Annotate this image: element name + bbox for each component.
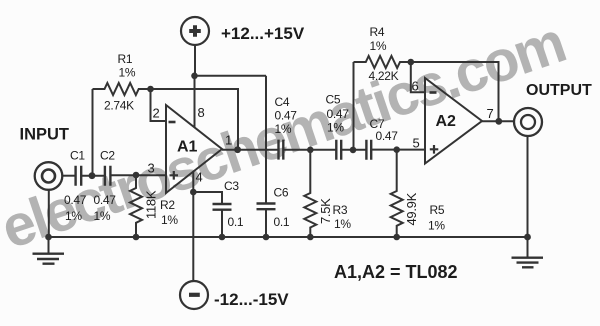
ground symbol right	[512, 237, 544, 267]
node R2 top	[133, 172, 140, 179]
wire pin4 to V-	[192, 172, 194, 281]
node C5-C7 / R4 tap	[350, 147, 357, 154]
wire C3 bottom lead	[221, 210, 223, 237]
capacitor C7	[366, 117, 398, 160]
svg-text:1%: 1%	[275, 122, 292, 136]
svg-text:C3: C3	[224, 179, 239, 193]
svg-text:INPUT: INPUT	[20, 126, 70, 144]
svg-text:R1: R1	[118, 52, 133, 66]
svg-text:1%: 1%	[94, 209, 111, 223]
capacitor C6	[257, 186, 290, 230]
node output ground	[524, 234, 531, 241]
node R3 bottom	[307, 234, 314, 241]
ground rail	[49, 236, 528, 238]
wire feedback A1	[151, 89, 239, 150]
node V+ junction	[191, 73, 198, 80]
svg-text:A1: A1	[177, 139, 198, 156]
svg-text:A2: A2	[436, 113, 457, 130]
svg-text:2.74K: 2.74K	[104, 99, 134, 113]
svg-text:0.47: 0.47	[275, 109, 298, 123]
svg-text:0.47: 0.47	[376, 129, 399, 143]
resistor R5	[391, 150, 446, 237]
svg-text:0.47: 0.47	[327, 107, 350, 121]
wire A1 output to C4	[222, 149, 278, 151]
svg-text:1%: 1%	[428, 219, 445, 233]
capacitor C5	[326, 93, 350, 160]
node R5 top	[393, 146, 400, 153]
svg-text:R4: R4	[370, 25, 385, 39]
svg-text:+12...+15V: +12...+15V	[221, 24, 305, 43]
svg-text:R5: R5	[430, 203, 445, 217]
wire C4 to C5	[283, 149, 336, 151]
wire output connector to ground rail	[527, 135, 529, 237]
V- supply terminal	[180, 281, 208, 309]
svg-text:2: 2	[153, 106, 160, 121]
svg-text:1: 1	[225, 133, 232, 148]
capacitor C1	[64, 149, 87, 224]
svg-text:0.47: 0.47	[94, 193, 117, 207]
wire input shield down	[48, 189, 50, 237]
svg-text:OUTPUT: OUTPUT	[526, 82, 592, 99]
ground symbol left	[33, 237, 65, 264]
wire C1 to C2	[81, 175, 104, 177]
wire V+ rail to C6	[195, 75, 267, 77]
svg-text:7: 7	[487, 106, 494, 121]
wire feedback A2	[411, 62, 499, 121]
wire R4 left vertical	[353, 62, 355, 150]
node R4 right junction	[408, 59, 415, 66]
svg-text:1%: 1%	[327, 121, 344, 135]
op-amp A1	[166, 105, 222, 193]
resistor R3	[304, 150, 351, 237]
svg-text:8: 8	[198, 105, 205, 120]
node pin4 / C3	[190, 189, 197, 196]
svg-text:C1: C1	[70, 149, 85, 163]
wire C3 branch	[193, 192, 222, 204]
wire C2 to pin3	[110, 174, 166, 176]
op-amp A2	[425, 78, 482, 164]
node A2 output	[495, 118, 502, 125]
svg-text:C5: C5	[326, 93, 341, 107]
wire C6 top lead	[265, 76, 267, 203]
wire pin6	[411, 62, 425, 92]
resistor R4	[354, 25, 411, 83]
svg-text:C6: C6	[274, 186, 289, 200]
node C4-C5 / R3 top	[307, 147, 314, 154]
svg-text:4: 4	[196, 170, 203, 185]
wire C5 to C7	[341, 149, 366, 151]
svg-text:0.47: 0.47	[64, 193, 87, 207]
svg-text:49.9K: 49.9K	[404, 192, 419, 225]
node R1 right junction	[147, 86, 154, 93]
node C3-ground rail	[219, 234, 226, 241]
svg-text:1%: 1%	[65, 209, 82, 223]
resistor R2	[130, 175, 178, 237]
svg-text:1%: 1%	[370, 39, 387, 53]
svg-text:0.1: 0.1	[228, 215, 244, 229]
svg-text:3: 3	[148, 161, 155, 176]
resistor R1	[93, 52, 151, 113]
svg-text:1%: 1%	[334, 217, 351, 231]
node R2 bottom	[133, 234, 140, 241]
capacitor C2	[94, 149, 117, 224]
svg-text:5: 5	[413, 136, 420, 151]
wire V+ to node	[194, 45, 196, 76]
svg-text:A1,A2 = TL082: A1,A2 = TL082	[334, 262, 458, 282]
capacitor C3	[213, 179, 244, 229]
svg-text:118K: 118K	[144, 190, 159, 219]
wire R1 left vertical	[92, 89, 94, 176]
svg-text:C2: C2	[100, 149, 115, 163]
wire pin2 stub	[151, 89, 167, 121]
node A1 output	[234, 146, 241, 153]
node input ground	[45, 234, 52, 241]
node R5 bottom	[393, 234, 400, 241]
svg-text:1%: 1%	[161, 213, 178, 227]
svg-text:1%: 1%	[119, 66, 136, 80]
svg-text:0.1: 0.1	[274, 215, 290, 229]
svg-text:7.5K: 7.5K	[318, 198, 333, 224]
svg-text:C4: C4	[275, 95, 290, 109]
wire input to C1	[62, 175, 75, 177]
svg-text:-12...-15V: -12...-15V	[214, 290, 289, 309]
capacitor C4	[275, 95, 298, 160]
wire C7 to pin5	[371, 149, 425, 151]
wire C6 bottom lead	[265, 209, 267, 237]
node C1-C2 junction	[89, 172, 96, 179]
V+ supply terminal	[181, 17, 209, 45]
wire pin8 lead	[194, 76, 196, 128]
INPUT connector J1	[35, 162, 63, 190]
svg-text:R3: R3	[333, 203, 348, 217]
svg-text:R2: R2	[160, 198, 175, 212]
svg-text:6: 6	[412, 79, 419, 94]
svg-text:4.22K: 4.22K	[369, 69, 399, 83]
wire A2 output	[482, 120, 515, 122]
node C6-ground rail	[263, 234, 270, 241]
OUTPUT connector J2	[514, 108, 542, 136]
